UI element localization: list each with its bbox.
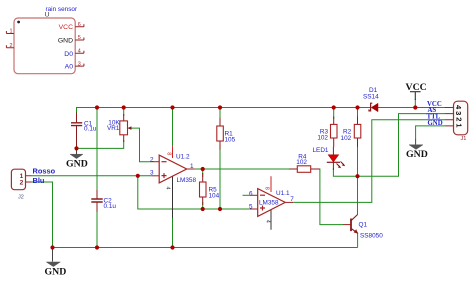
wire VCC symbol stem: [414, 99, 416, 108]
svg-text:LM358: LM358: [259, 200, 279, 207]
wire VR1 top: [123, 108, 125, 117]
svg-text:Rosso: Rosso: [33, 166, 56, 175]
wire R3 top: [333, 108, 335, 120]
svg-text:6: 6: [249, 191, 253, 198]
wire U1.1 pin6 stub: [243, 194, 250, 196]
svg-text:1: 1: [454, 123, 463, 127]
svg-text:GND: GND: [428, 120, 443, 127]
wire R1 column: [219, 108, 221, 210]
ground symbol under C1/VR1: [66, 148, 88, 169]
capacitor C1: [71, 113, 97, 149]
svg-text:rain sensor: rain sensor: [46, 6, 78, 13]
svg-text:2: 2: [20, 180, 24, 187]
resistor R3: [317, 117, 337, 148]
wire GND rail bottom: [53, 247, 358, 249]
svg-text:1: 1: [190, 163, 194, 170]
svg-text:GND: GND: [45, 267, 67, 278]
wire R2 column to Q1 collector: [357, 108, 359, 215]
svg-text:2: 2: [454, 117, 463, 121]
svg-text:102: 102: [317, 134, 328, 141]
svg-text:VR1: VR1: [107, 125, 120, 132]
ground symbol bottom left: [45, 248, 67, 278]
svg-text:6: 6: [78, 22, 81, 28]
svg-text:4: 4: [265, 220, 271, 223]
VCC power symbol: [406, 82, 427, 100]
svg-text:104: 104: [209, 193, 220, 200]
wire R4 to Q1 base: [319, 169, 344, 225]
svg-text:LM358: LM358: [177, 177, 197, 184]
potentiometer VR1: [107, 114, 132, 142]
wire VR1 wiper to U1.2 pin2: [132, 128, 152, 162]
resistor R4: [289, 154, 320, 173]
wire Q1 emitter to rail: [357, 233, 359, 248]
svg-text:GND: GND: [66, 158, 88, 169]
wire R5 bottom: [202, 202, 204, 209]
svg-text:SS8050: SS8050: [360, 233, 383, 240]
svg-text:SS14: SS14: [363, 93, 379, 100]
wire U1.2 pin8 column: [172, 108, 174, 147]
rain sensor U: [6, 6, 84, 74]
resistor R5: [200, 173, 220, 205]
svg-text:Q1: Q1: [359, 222, 368, 229]
capacitor C2: [91, 190, 116, 212]
svg-text:4: 4: [78, 49, 81, 55]
wire U1.2 output to R4: [195, 168, 290, 170]
svg-text:102: 102: [341, 135, 352, 142]
svg-text:J2: J2: [18, 195, 24, 201]
svg-text:A0: A0: [65, 64, 74, 71]
wire Blu net J2 pin2 to GND rail: [32, 182, 53, 248]
wire U1.2 pin4 to rail: [172, 218, 174, 248]
svg-text:3: 3: [78, 61, 81, 67]
wire TTL net U1.1 output to J1 pin2: [293, 120, 445, 203]
pin 4 D0: [75, 51, 84, 54]
svg-text:1: 1: [10, 29, 13, 35]
wire VR1 bottom to C1 GND node: [77, 131, 124, 148]
svg-text:2: 2: [150, 156, 154, 163]
svg-text:3: 3: [150, 170, 154, 177]
svg-text:0.1u: 0.1u: [104, 203, 117, 210]
svg-text:3: 3: [454, 111, 463, 115]
svg-text:U1.2: U1.2: [176, 153, 190, 160]
svg-text:J1: J1: [461, 136, 467, 142]
svg-text:5: 5: [249, 204, 253, 211]
op-amp U1.1 LM358: [249, 176, 294, 230]
pin 1: [6, 31, 14, 34]
ground symbol under J1: [406, 139, 428, 160]
resistor R1: [217, 118, 236, 150]
pin 6 VCC: [75, 24, 84, 27]
svg-text:105: 105: [225, 137, 236, 144]
diode D1 SS14: [363, 87, 379, 112]
pin 3 A0: [75, 64, 84, 67]
LED LED1: [313, 147, 346, 170]
svg-text:GND: GND: [58, 38, 73, 45]
svg-text:VCC: VCC: [59, 24, 73, 31]
svg-text:U1.1: U1.1: [276, 190, 290, 197]
svg-text:7: 7: [290, 196, 294, 203]
svg-text:LED1: LED1: [313, 147, 329, 154]
transistor Q1 SS8050: [343, 215, 383, 240]
resistor R2: [341, 117, 361, 148]
svg-text:8: 8: [263, 187, 269, 190]
wire R5 top: [202, 169, 204, 177]
svg-text:D0: D0: [64, 51, 73, 58]
wire C2 column: [96, 108, 98, 248]
svg-text:5: 5: [78, 35, 81, 41]
connector J2: [11, 169, 32, 200]
wire sensor node to U1.1 pin5: [138, 176, 250, 209]
wire GND J1 pin1: [416, 126, 445, 140]
svg-text:GND: GND: [406, 149, 428, 160]
svg-text:U: U: [45, 12, 50, 19]
svg-text:8: 8: [165, 152, 171, 155]
svg-text:102: 102: [296, 159, 307, 166]
svg-text:4: 4: [165, 187, 171, 190]
wire AS net LED node to J1 pin3: [333, 114, 445, 177]
svg-text:Blu: Blu: [33, 176, 45, 185]
pin 2: [6, 45, 14, 48]
svg-text:2: 2: [10, 43, 13, 49]
pin 5 GND: [75, 38, 84, 41]
connector J1: [445, 101, 468, 142]
wire Rosso net J2 pin1 to U1.2 pin3: [32, 175, 151, 177]
svg-text:0.1u: 0.1u: [84, 125, 97, 132]
op-amp U1.2 LM358: [150, 146, 196, 218]
wire VCC bus: [77, 108, 446, 123]
